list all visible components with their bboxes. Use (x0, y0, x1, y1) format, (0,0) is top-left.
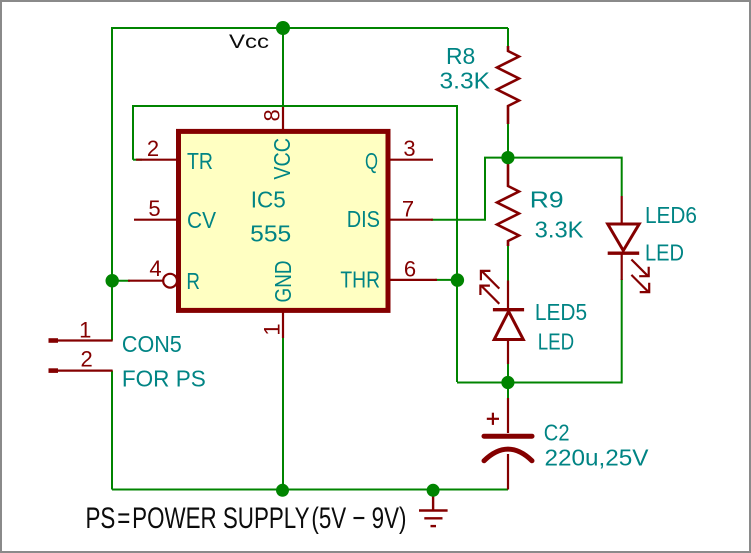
LED D5 emission arrow 1 (481, 271, 499, 289)
wire R8 top lead (507, 28, 509, 46)
svg-text:R: R (186, 268, 200, 294)
svg-text:220u,25V: 220u,25V (545, 445, 650, 471)
junction node THR (451, 273, 464, 286)
svg-text:2: 2 (80, 347, 92, 372)
wire TR elbow (133, 159, 142, 161)
wire left rail lower (111, 371, 113, 490)
resistor R8 (497, 46, 519, 124)
svg-text:5: 5 (148, 196, 160, 221)
junction node GND pin (276, 484, 289, 497)
wire THR to junction (435, 279, 457, 281)
connector CON5 pin 2 (58, 370, 113, 372)
svg-text:LED6: LED6 (645, 202, 697, 228)
svg-text:LED: LED (538, 329, 574, 355)
LED D5 pin bottom (507, 340, 509, 365)
wire R8 bottom to junction (507, 124, 509, 160)
junction node Vcc top (276, 21, 290, 35)
svg-text:C2: C2 (544, 420, 570, 446)
pin 6 THR stub (390, 279, 437, 281)
wire junction to C2 (507, 383, 509, 399)
capacitor C2 bottom pin (507, 454, 509, 490)
junction node LED bottom (501, 376, 514, 389)
LED D6 triangle (608, 224, 640, 251)
pin 7 DIS stub (390, 219, 433, 221)
wire top Vcc rail (112, 27, 508, 29)
pin 4 inversion bubble (163, 274, 177, 288)
capacitor C2 top plate (484, 434, 532, 439)
svg-text:GND: GND (270, 261, 296, 303)
wire R pin to left rail (112, 280, 130, 282)
svg-text:3.3K: 3.3K (440, 67, 491, 93)
capacitor C2 top pin (507, 398, 509, 433)
wire R9 to LED5 mid segment (507, 246, 509, 281)
svg-text:Q: Q (365, 148, 378, 174)
LED D5 triangle (494, 311, 523, 339)
LED D6 pin top (621, 196, 623, 226)
svg-text:CV: CV (187, 207, 217, 233)
svg-text:VCC: VCC (269, 138, 295, 180)
svg-text:LED: LED (645, 239, 684, 265)
wire TR-THR link rail (133, 106, 457, 382)
svg-text:LED5: LED5 (535, 299, 587, 325)
wire LED6 bottom branch (457, 279, 622, 383)
svg-text:R8: R8 (446, 43, 475, 69)
connector CON5 pin 1 (58, 339, 113, 341)
svg-text:4: 4 (149, 256, 161, 281)
wire junction to LED6 branch (508, 158, 622, 196)
svg-text:TR: TR (187, 148, 213, 174)
wire left rail upper (111, 27, 113, 341)
LED D6 emission arrow 2 (631, 275, 649, 292)
wire Vcc drop to pin 8 (282, 28, 284, 107)
wire bottom rail (112, 489, 508, 491)
svg-text:R9: R9 (530, 187, 564, 213)
op-amp IC5 body (179, 131, 389, 310)
svg-text:7: 7 (402, 197, 414, 222)
LED D6 cathode bar (608, 251, 640, 254)
svg-text:2: 2 (147, 136, 159, 161)
svg-text:6: 6 (404, 256, 416, 281)
pin 1 GND stub (282, 311, 284, 338)
pin 3 Q stub (390, 159, 433, 161)
capacitor C2 plus sign (487, 413, 499, 425)
junction node ground symbol (427, 484, 440, 497)
connector CON5 pad 1 (49, 338, 59, 343)
resistor R9 (497, 160, 519, 246)
connector CON5 pad 2 (49, 368, 59, 373)
svg-text:PS = POWER SUPPLY (5V − 9V): PS = POWER SUPPLY (5V − 9V) (86, 502, 407, 535)
svg-text:1: 1 (79, 317, 91, 342)
pin 4 R stub (128, 280, 163, 282)
svg-text:3: 3 (403, 136, 415, 161)
pin 5 CV stub (134, 219, 176, 221)
svg-text:3.3K: 3.3K (535, 217, 584, 243)
svg-text:DIS: DIS (347, 206, 380, 232)
svg-text:IC5: IC5 (251, 186, 286, 212)
junction node R pin (106, 274, 119, 287)
svg-text:1: 1 (260, 323, 285, 335)
junction node R8 bottom (501, 151, 514, 164)
svg-text:555: 555 (250, 220, 291, 246)
svg-text:8: 8 (260, 109, 285, 121)
LED D6 pin bottom (621, 253, 623, 280)
LED D5 cathode bar (493, 308, 524, 311)
svg-text:FOR PS: FOR PS (122, 366, 206, 392)
wire LED5 bottom to junction (507, 362, 509, 383)
pin 8 VCC stub (282, 107, 284, 130)
wire DIS to R8 junction (431, 158, 508, 220)
LED D5 emission arrow 2 (480, 285, 499, 303)
ground symbol (419, 490, 448, 526)
LED D6 emission arrow 1 (631, 260, 648, 277)
svg-text:CON5: CON5 (122, 331, 182, 357)
svg-text:THR: THR (340, 267, 380, 293)
svg-text:Vcc: Vcc (229, 31, 269, 53)
capacitor C2 bottom plate arc (484, 449, 532, 461)
wire GND pin to bottom rail (282, 337, 284, 490)
LED D5 pin top (507, 281, 509, 311)
pin 2 TR stub (136, 159, 176, 161)
